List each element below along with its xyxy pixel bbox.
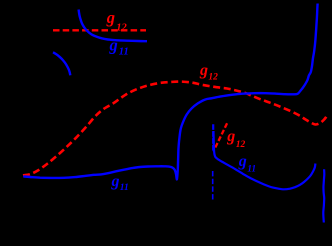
svg-text:g: g [238,153,247,170]
svg-text:g: g [226,128,235,145]
svg-text:g: g [199,62,208,79]
inset bottom-right: red dashed diagonal g12 [215,122,227,148]
svg-text:12: 12 [236,140,246,150]
inset bottom-right: blue solid curve g11 [214,131,316,189]
inset top-left: blue curve left fragment [53,52,70,75]
main blue curve g11 [23,4,317,180]
inset top-left: blue curve g11 steep branch [79,10,147,42]
svg-text:g: g [109,36,118,55]
svg-text:11: 11 [120,183,129,193]
svg-text:g: g [106,8,115,27]
svg-text:11: 11 [119,46,129,57]
inset bottom-right: blue dashed vertical lower marker [212,171,214,200]
svg-text:12: 12 [208,72,218,82]
svg-text:12: 12 [116,23,127,34]
svg-text:11: 11 [247,165,256,175]
main red dashed curve g12 [23,82,328,176]
inset bottom-right: blue vertical line at right [323,169,324,222]
inset top-left: red dashed asymptote line g12 [53,29,146,31]
svg-text:g: g [111,173,120,190]
inset bottom-right: blue near-vertical upper marker [212,124,214,152]
